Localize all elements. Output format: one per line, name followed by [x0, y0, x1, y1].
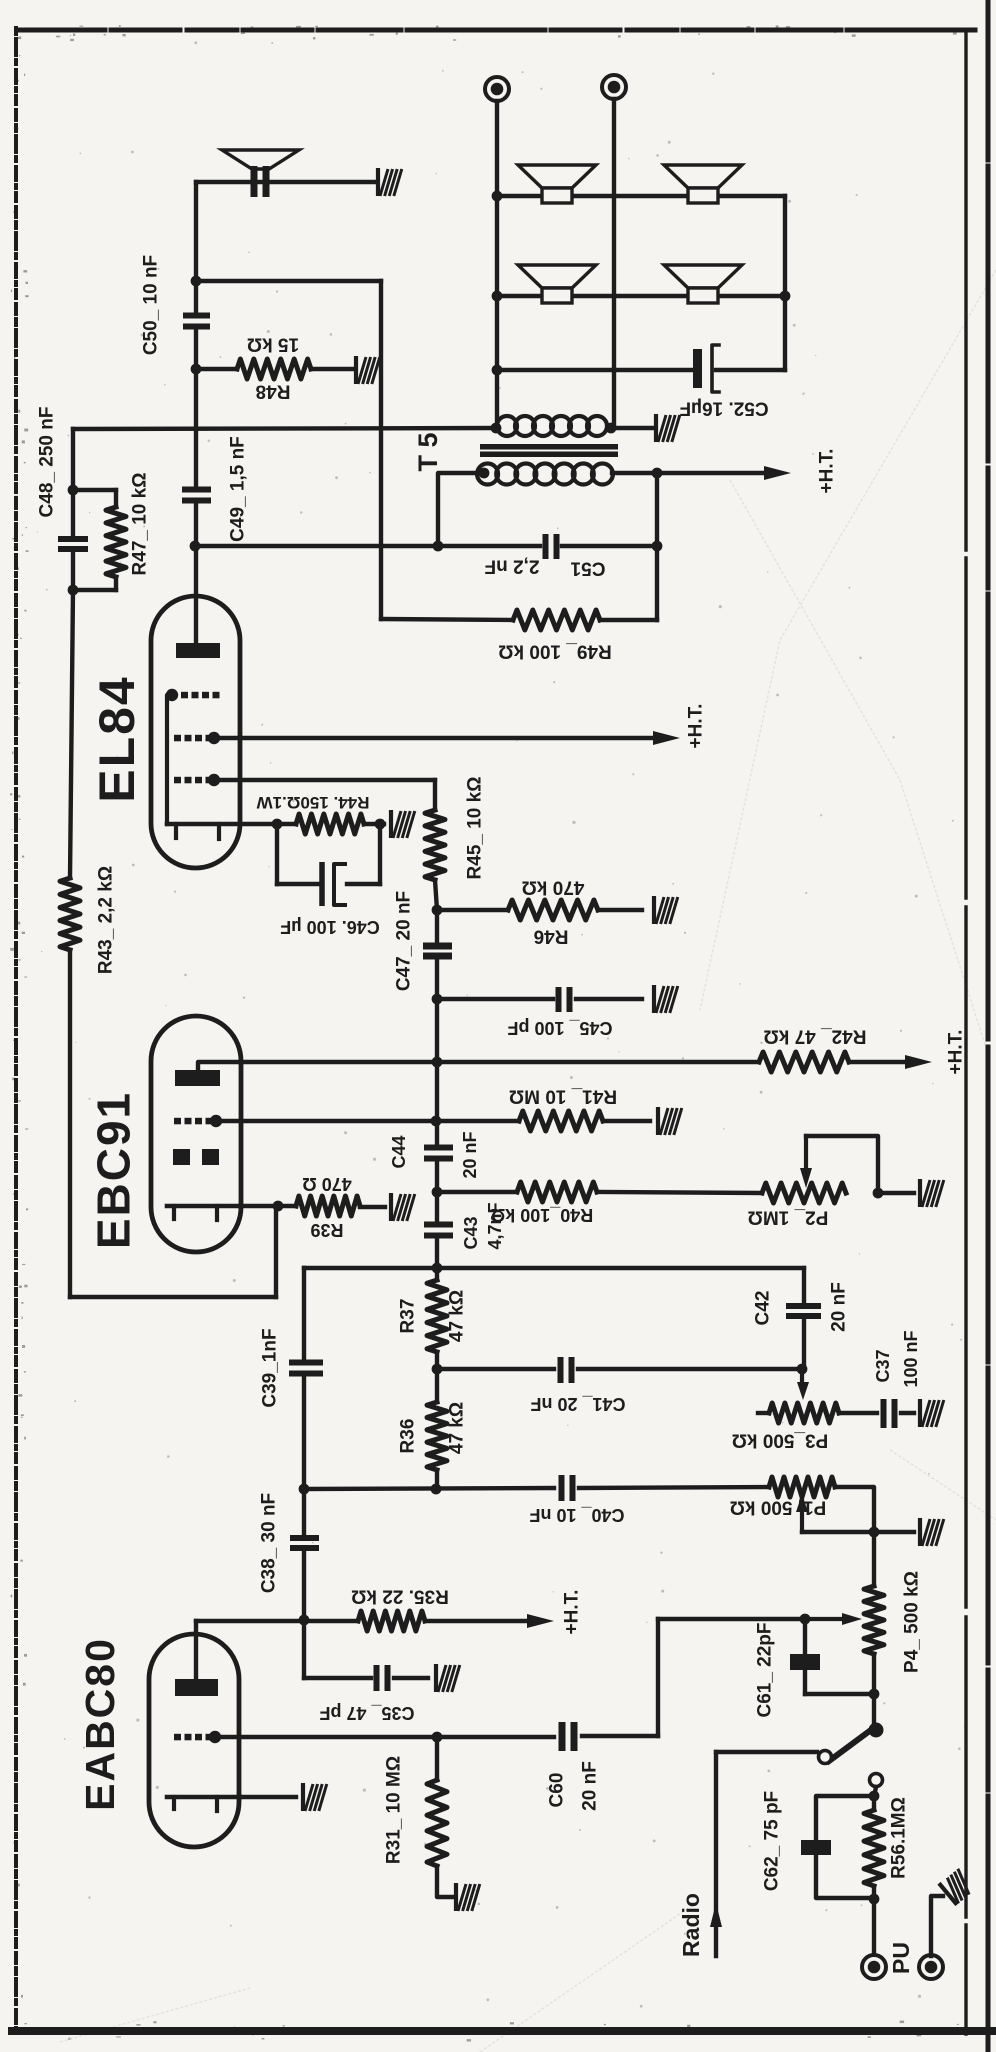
wire grid line to C60 [437, 1735, 554, 1739]
wire C41 left [437, 1367, 554, 1371]
wire C39 bottom [302, 1375, 306, 1489]
transformer T5 core [480, 444, 618, 450]
wire EBC91 cathode out [240, 1204, 296, 1208]
wire bus C44-C43 [435, 1160, 439, 1224]
svg-text:P3_500 kΩ: P3_500 kΩ [732, 1430, 829, 1451]
node R31 top [432, 1732, 443, 1743]
resistor R48 15k [237, 359, 311, 379]
svg-text:C38_ 30 nF: C38_ 30 nF [258, 1493, 279, 1593]
P2 top loop [806, 1136, 878, 1193]
wire C48 vertical [71, 429, 75, 536]
wire PU throw down [874, 1787, 876, 1797]
node R44 right [375, 819, 386, 830]
ground R44 [391, 810, 415, 838]
svg-text:20 nF: 20 nF [460, 1131, 480, 1178]
wire P1 to ground [874, 1530, 914, 1534]
svg-text:C39_1nF: C39_1nF [259, 1328, 280, 1407]
node C45 [432, 994, 443, 1005]
wire R40 left [437, 1190, 517, 1194]
transformer T5 secondary coil [497, 416, 517, 436]
wire EABC80 grid line [215, 1735, 437, 1739]
capacitor C62 loop [816, 1796, 874, 1838]
terminal PU 1 [862, 1955, 886, 1979]
wire R47 top [73, 488, 116, 492]
potentiometer P3 500k [769, 1403, 839, 1423]
wire EBC91 grid out [216, 1119, 435, 1123]
ground C37 [920, 1399, 944, 1427]
node row3 [492, 365, 503, 376]
wire y1268 to C42 [304, 1266, 804, 1270]
wire HT node down [655, 473, 659, 620]
wire primary left down [438, 473, 484, 546]
node C41 [432, 1364, 443, 1375]
wire PU2 to ground [931, 1896, 943, 1956]
wire R47 bottom [114, 577, 118, 590]
capacitor C60 plates [559, 1722, 566, 1751]
capacitor C35 plates [374, 1665, 380, 1691]
EBC91 anode plate [175, 1070, 220, 1086]
capacitor C37 plates [881, 1399, 887, 1428]
svg-text:C35_ 47 pF: C35_ 47 pF [319, 1703, 414, 1723]
wire g2 to HT [214, 736, 654, 740]
svg-text:R49_ 100 kΩ: R49_ 100 kΩ [498, 641, 611, 662]
svg-text:R46: R46 [534, 926, 569, 947]
resistor R36 47k [427, 1402, 447, 1470]
wire C61 bottom [805, 1692, 874, 1696]
wire EABC80 plate line [196, 1619, 358, 1623]
arrow radio [710, 1903, 722, 1927]
capacitor C41 plates [558, 1357, 564, 1383]
resistor R46 470k [508, 900, 598, 920]
resistor R47 10k [106, 507, 126, 577]
wire R45 bottom [435, 880, 437, 910]
capacitor C50 plates [183, 313, 210, 319]
transformer T5 primary coil [477, 464, 498, 485]
svg-text:C47_ 20 nF: C47_ 20 nF [393, 891, 414, 991]
svg-text:R48: R48 [256, 381, 291, 402]
P3 wiper arrow [800, 1369, 804, 1382]
resistor R41 10M [519, 1111, 603, 1131]
resistor R45 10k [425, 810, 445, 880]
svg-text:PU: PU [888, 1942, 914, 1974]
capacitor C42 vertical leg [802, 1268, 806, 1303]
wire EL84 cathode out [240, 822, 296, 826]
switch throw radio [819, 1751, 832, 1764]
wire bus below C47 [435, 959, 439, 1145]
node C50/R48 [191, 364, 202, 375]
capacitor C52 16uF [693, 349, 702, 388]
svg-text:+H.T.: +H.T. [816, 449, 837, 494]
arrow HT R42 [905, 1055, 932, 1069]
capacitor C40 plates [559, 1475, 565, 1501]
wire row3 right [716, 368, 785, 372]
svg-text:C52. 16µF: C52. 16µF [679, 398, 768, 419]
wire vertical x381 to R49 [379, 281, 383, 619]
speaker LS3 [518, 265, 596, 288]
svg-text:C45_ 100 pF: C45_ 100 pF [507, 1018, 612, 1038]
arrow HT g2 [653, 731, 680, 745]
potentiometer P4 500k [864, 1586, 884, 1654]
svg-text:470 kΩ: 470 kΩ [522, 877, 585, 898]
wire R43 upper [70, 590, 73, 878]
svg-text:R43_ 2,2 kΩ: R43_ 2,2 kΩ [95, 866, 116, 974]
svg-text:C61_ 22pF: C61_ 22pF [754, 1622, 775, 1717]
wire R48 stub [196, 367, 237, 371]
svg-text:+H.T.: +H.T. [945, 1030, 966, 1075]
wire P3 to C37 [839, 1411, 877, 1415]
wire EABC80 anode stub [194, 1621, 198, 1679]
node R40 [432, 1187, 443, 1198]
svg-text:C50_ 10 nF: C50_ 10 nF [140, 255, 161, 355]
tweeter cone [222, 150, 299, 169]
svg-text:R41_ 10 MΩ: R41_ 10 MΩ [509, 1086, 617, 1107]
wire R48 to ground [311, 367, 353, 371]
ground tweeter [378, 168, 402, 196]
ground PU2 [939, 1868, 975, 1905]
potentiometer P1 500k [769, 1477, 835, 1497]
wire C40 to P1 [579, 1487, 769, 1488]
wire P4 top [872, 1532, 876, 1586]
ground R46 [654, 896, 678, 924]
EL84 grid2 [174, 735, 181, 742]
svg-text:R45_ 10 kΩ: R45_ 10 kΩ [464, 777, 485, 880]
node C51 right [652, 541, 663, 552]
svg-text:Radio: Radio [678, 1893, 704, 1957]
svg-text:T 5: T 5 [413, 432, 443, 471]
node tweeter/row2 [191, 276, 202, 287]
speaker LS1 [518, 165, 596, 188]
resistor R37 47k [427, 1280, 447, 1352]
capacitor C38 leg [302, 1489, 306, 1536]
wire bus y1489 left [304, 1488, 554, 1489]
wire C51 right [562, 544, 657, 548]
EBC91 diode plates [173, 1149, 190, 1165]
wire C60 up to volume [656, 1619, 660, 1736]
wire R35 to HT [425, 1619, 534, 1623]
ground R48 [356, 356, 380, 384]
ground C45 [654, 985, 678, 1013]
border frame right [964, 30, 967, 2034]
wire row2 left [196, 279, 381, 283]
wire P4 to switch [872, 1654, 876, 1694]
ground EABC80 cathode [303, 1783, 327, 1811]
svg-text:470 Ω: 470 Ω [302, 1174, 351, 1194]
wire R44 to ground [364, 822, 384, 826]
wire R43 lower [68, 950, 72, 1297]
wire C46 loop left [275, 824, 279, 884]
wire PU terminal 1 [872, 1899, 876, 1956]
node R56 bottom [869, 1894, 880, 1905]
svg-text:47 kΩ: 47 kΩ [446, 1290, 467, 1342]
node row2 right [780, 291, 791, 302]
wire R40 to P2 [597, 1192, 762, 1193]
wire left vertical tweeter to EL84 anode [194, 182, 198, 313]
wire radio to switch [716, 1750, 817, 1754]
wire C35 leg [302, 1620, 306, 1678]
svg-text:15 kΩ: 15 kΩ [247, 334, 299, 355]
resistor R35 22k [358, 1611, 425, 1631]
capacitor C44 plates [424, 1145, 453, 1151]
capacitor C61 leg [803, 1619, 807, 1652]
wire R39 to ground [360, 1205, 385, 1209]
wire EBC91 anode bus [198, 1062, 759, 1071]
tube EBC91 envelope [151, 1016, 241, 1252]
EL84 anode plate [176, 643, 220, 658]
EBC91 grid [174, 1118, 181, 1125]
wire R49 right [600, 618, 657, 622]
wire radio input [714, 1752, 718, 1956]
wire C39 top corner [302, 1268, 306, 1361]
potentiometer P2 1M [762, 1183, 846, 1203]
arrow HT R35 [527, 1614, 554, 1628]
svg-text:P2_ 1MΩ: P2_ 1MΩ [748, 1207, 829, 1228]
resistor R43 2.2k [60, 878, 80, 950]
node P1 bottom [869, 1527, 880, 1538]
EABC80 grid [174, 1734, 181, 1741]
wire R31 upper [435, 1737, 439, 1780]
wire volume line [658, 1617, 805, 1621]
node secondary left [491, 423, 502, 434]
wire speaker row1 [497, 194, 785, 198]
EL84 cathode bar [167, 822, 240, 827]
terminal PU 2 [919, 1955, 943, 1979]
wire R49 left [381, 619, 513, 620]
svg-text:R35. 22 kΩ: R35. 22 kΩ [351, 1586, 449, 1607]
resistor R31 10M [427, 1780, 447, 1866]
switch pole dot [869, 1723, 884, 1738]
svg-text:R39: R39 [310, 1220, 343, 1240]
wire R41 to ground [603, 1119, 650, 1123]
capacitor C51 plates [543, 534, 549, 559]
svg-text:100 nF: 100 nF [901, 1330, 921, 1387]
switch throw PU [870, 1774, 883, 1787]
EBC91 cathode bar [167, 1204, 240, 1209]
wire C51 left [438, 544, 540, 548]
capacitor C49 plates [182, 487, 211, 493]
terminal jack 2 [602, 75, 626, 99]
P2 wiper arrow [804, 1136, 808, 1172]
svg-text:C43: C43 [461, 1216, 481, 1249]
svg-text:C62_ 75 pF: C62_ 75 pF [761, 1791, 782, 1891]
wire R37-R36 [435, 1352, 439, 1402]
resistor R44 150R [296, 814, 364, 834]
wire P1 right loop [835, 1487, 874, 1532]
border frame left [14, 28, 18, 2036]
node P4 bottom [869, 1689, 880, 1700]
wire secondary to ground [611, 426, 652, 430]
svg-text:C51: C51 [570, 558, 605, 579]
speaker LS4 [664, 265, 742, 288]
node row1 [492, 191, 503, 202]
node C48 top [68, 485, 79, 496]
node y1268 [432, 1263, 443, 1274]
svg-text:R47_ 10 kΩ: R47_ 10 kΩ [129, 473, 150, 576]
svg-text:C37: C37 [873, 1349, 893, 1382]
svg-text:P4_ 500 kΩ: P4_ 500 kΩ [901, 1571, 922, 1673]
arrow HT plate [764, 466, 791, 480]
svg-text:C44: C44 [389, 1135, 409, 1168]
svg-text:R36: R36 [397, 1419, 418, 1454]
ground P1 [920, 1518, 944, 1546]
node C48 bottom [68, 585, 79, 596]
svg-text:+H.T.: +H.T. [685, 704, 706, 749]
node R45/R46 [432, 905, 443, 916]
wire tweeter line [196, 180, 374, 184]
svg-text:2,2 nF: 2,2 nF [485, 556, 540, 577]
svg-text:R56.1MΩ: R56.1MΩ [888, 1797, 909, 1879]
page edge right [986, 0, 991, 2052]
svg-text:EABC80: EABC80 [77, 1637, 123, 1811]
wire speaker row2 [497, 294, 785, 298]
svg-text:EL84: EL84 [89, 675, 145, 803]
wire R41 [436, 1119, 519, 1123]
resistor R40 100k [517, 1182, 597, 1202]
node C38 bottom [299, 1615, 310, 1626]
wire jack1 down [495, 101, 499, 428]
wire P1 bottom [802, 1530, 874, 1534]
wire C45 left [437, 997, 553, 1001]
svg-text:+H.T.: +H.T. [561, 1590, 582, 1635]
ground R31 [456, 1883, 480, 1911]
svg-text:47 kΩ: 47 kΩ [446, 1402, 467, 1454]
wire EABC80 cathode to ground [240, 1795, 296, 1799]
resistor R42 47k [759, 1052, 849, 1072]
wire R36 bottom [435, 1470, 439, 1489]
wire bus y428 to secondary [73, 428, 496, 429]
capacitor C39 plates [289, 1360, 323, 1366]
ground C35 [436, 1664, 460, 1692]
node secondary right [606, 423, 617, 434]
ground secondary [656, 414, 680, 442]
wire C45 right [576, 997, 642, 1001]
EL84 g3-cathode wire [167, 695, 172, 824]
speaker LS2 [664, 165, 742, 188]
wire R46 [437, 908, 508, 912]
svg-text:R42_ 47 kΩ: R42_ 47 kΩ [764, 1026, 867, 1047]
resistor R39 470R [296, 1196, 360, 1216]
node C51 left [433, 541, 444, 552]
svg-text:R44. 150Ω.1W: R44. 150Ω.1W [256, 793, 370, 812]
svg-text:C46. 100 µF: C46. 100 µF [280, 917, 379, 937]
wire row3 left [497, 368, 694, 372]
wire C46 loop right [347, 882, 380, 886]
EL84 grid3 [166, 689, 178, 701]
resistor R49 100k [513, 610, 600, 630]
wire right vertical [783, 196, 787, 370]
svg-text:20 nF: 20 nF [828, 1282, 849, 1332]
node grid bus [431, 1116, 442, 1127]
node anode bus [432, 1057, 443, 1068]
P1 wiper [800, 1496, 804, 1532]
tweeter coil bars [251, 166, 258, 197]
wire R56 top [869, 1791, 880, 1802]
svg-text:C48_ 250 nF: C48_ 250 nF [36, 407, 57, 518]
ground P2 [920, 1179, 944, 1207]
wire C41 right [578, 1367, 802, 1371]
capacitor C48 plates [58, 536, 88, 542]
node primary right [652, 468, 663, 479]
svg-text:C49_ 1,5 nF: C49_ 1,5 nF [227, 436, 248, 542]
node C38/C39 bus [299, 1484, 310, 1495]
svg-text:EBC91: EBC91 [88, 1091, 140, 1249]
wire P2 to ground [878, 1191, 914, 1195]
ground R41 [658, 1107, 682, 1135]
wire R31 to ground [437, 1866, 452, 1897]
svg-text:R40_100 kΩ: R40_100 kΩ [491, 1205, 594, 1225]
svg-text:4,7nF: 4,7nF [485, 1202, 505, 1249]
wire R46 to ground [598, 908, 642, 912]
capacitor C45 plates [556, 987, 562, 1012]
border frame bottom [12, 2027, 996, 2035]
svg-text:C40_ 10 nF: C40_ 10 nF [529, 1505, 624, 1525]
node C42/P3 [797, 1364, 808, 1375]
svg-text:20 nF: 20 nF [579, 1761, 600, 1811]
svg-text:C42: C42 [752, 1291, 773, 1326]
wire C37 to ground [901, 1411, 914, 1415]
P4 wiper arrow [805, 1617, 844, 1621]
wire EL84 anode stub [194, 546, 198, 643]
node cathode/R39 [273, 1201, 284, 1212]
EL84 grid1 [174, 777, 181, 784]
svg-text:R31_ 10 MΩ: R31_ 10 MΩ [383, 1756, 404, 1864]
border frame top [18, 28, 975, 33]
node row2 [492, 291, 503, 302]
wire cathode return vertical [274, 1206, 278, 1297]
wire R42 to arrow [849, 1060, 912, 1064]
svg-text:C60: C60 [546, 1773, 567, 1808]
EABC80 cathode bar [167, 1795, 240, 1800]
terminal jack 1 [485, 77, 509, 101]
capacitor C43 plates [424, 1222, 453, 1228]
capacitor C46 electrolytic [319, 862, 325, 906]
node C49/C51 junction [190, 541, 201, 552]
EABC80 anode plate [175, 1679, 218, 1696]
wire C49 junction to C51 [195, 544, 438, 548]
node cathode/R44 [272, 819, 283, 830]
wire bus C47 [435, 910, 439, 943]
wire C60 right [582, 1734, 658, 1738]
wire primary right to HT [612, 471, 771, 475]
capacitor C47 plates [423, 943, 452, 950]
wire cathode return horizontal [70, 1295, 276, 1299]
node primary left [479, 468, 490, 479]
resistor R56 1M [864, 1810, 884, 1886]
tube EL84 envelope [151, 596, 240, 868]
wire g1 to bus [214, 778, 435, 782]
switch lever [829, 1727, 875, 1761]
svg-text:R37: R37 [397, 1299, 418, 1334]
node R36 bottom [431, 1484, 442, 1495]
svg-text:C41_ 20 nF: C41_ 20 nF [530, 1394, 625, 1414]
wire jack2 down [612, 99, 616, 428]
svg-text:P1, 500 kΩ: P1, 500 kΩ [730, 1497, 827, 1518]
wire C35 to ground [394, 1676, 428, 1680]
node C61 top [800, 1614, 811, 1625]
node P2 right [873, 1188, 884, 1199]
ground R39 [391, 1193, 415, 1221]
tube EABC80 envelope [149, 1634, 239, 1847]
wire bus below C43 [435, 1237, 439, 1280]
